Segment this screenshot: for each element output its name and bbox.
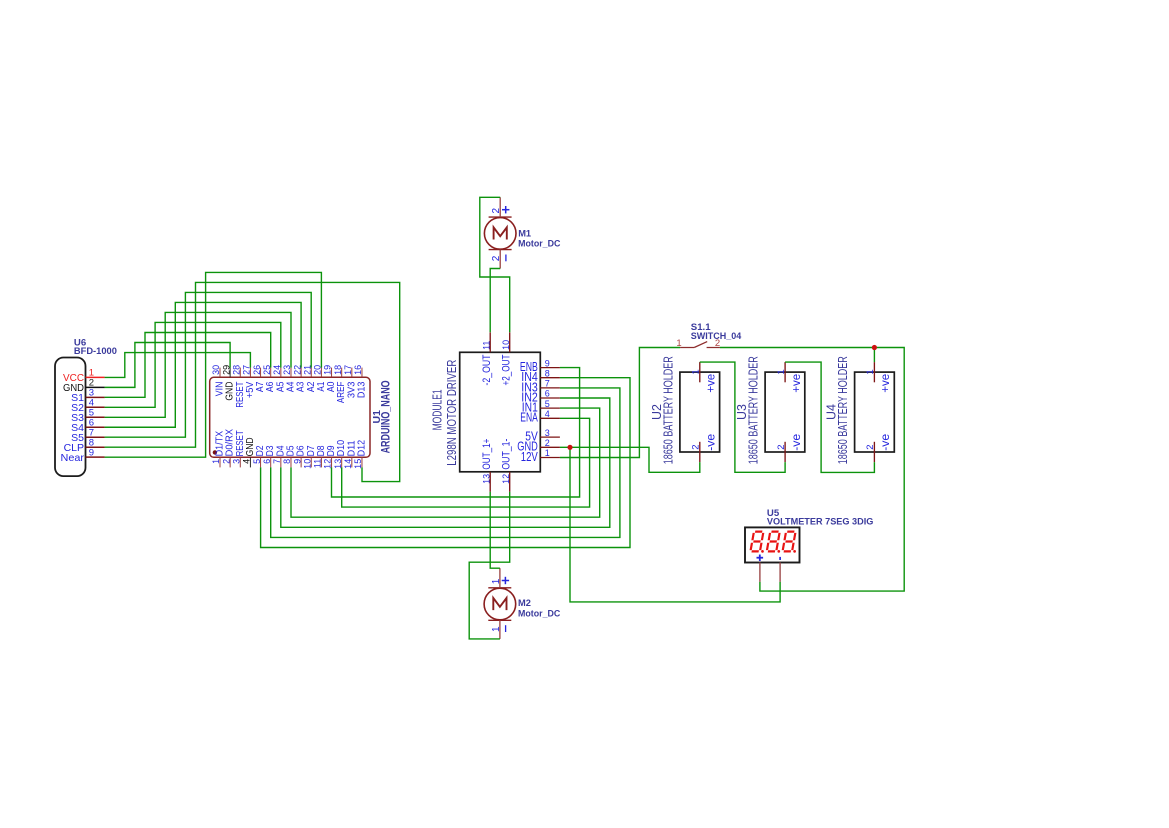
- U1 pin 16 (D13) top: [353, 365, 367, 398]
- svg-text:30: 30: [211, 365, 221, 375]
- U1 pin 17 (3V3) top: [343, 365, 357, 398]
- svg-text:7: 7: [545, 379, 550, 389]
- wire U6.7 S5 to U1.21 A2: [105, 292, 312, 437]
- svg-text:3: 3: [545, 428, 550, 438]
- svg-text:SWITCH_04: SWITCH_04: [691, 331, 742, 342]
- svg-text:28: 28: [231, 365, 241, 375]
- svg-text:OUT_1+: OUT_1+: [481, 439, 493, 470]
- MODULE1 pin 6 (IN2) right: [521, 389, 560, 405]
- U6 pin 3 (S1): [71, 388, 105, 404]
- junction net BATT+ at U4.1: [872, 345, 877, 350]
- wire U1.7 D4 to MODULE1.6 IN2: [281, 398, 610, 527]
- U1 pin 9 (D6) bottom: [292, 445, 306, 467]
- svg-text:M2: M2: [518, 598, 531, 608]
- svg-text:17: 17: [343, 365, 353, 375]
- U1 pin 14 (D11) bottom: [343, 440, 357, 469]
- svg-text:6: 6: [262, 459, 272, 464]
- U1 pin 12 (D9) bottom: [323, 445, 337, 469]
- U1 pin 24 (A5) top: [272, 365, 286, 392]
- U1 pin 18 (AREF) top: [333, 365, 347, 403]
- wire net BATT+ S1.1 pin2 to U5.1 +: [720, 348, 904, 592]
- U3 pin 2 (-ve) bottom: [776, 433, 803, 462]
- U1 pin 23 (A4) top: [282, 365, 296, 392]
- MODULE1 pin 10 (+2_OUT) top: [501, 332, 513, 385]
- svg-text:13: 13: [481, 474, 491, 484]
- M1 pin 2 (-) bottom: [491, 250, 506, 269]
- svg-text:10: 10: [501, 340, 511, 350]
- wire U2.1 +ve to U3.2 -ve: [700, 362, 785, 472]
- wire U6.9 Near to U1.20 A1: [105, 272, 322, 457]
- wire U6.5 S3 to U1.23 A4: [105, 312, 291, 417]
- svg-text:18650 BATTERY HOLDER: 18650 BATTERY HOLDER: [661, 356, 675, 464]
- U1 pin 6 (D3) bottom: [262, 445, 276, 467]
- svg-text:1: 1: [691, 369, 702, 374]
- svg-text:1: 1: [211, 459, 221, 464]
- U5 pin 1 (+): [757, 555, 764, 582]
- svg-text:+ve: +ve: [704, 373, 718, 392]
- wire U6.2 GND to U1.29 GND: [105, 343, 231, 388]
- MODULE1 pin 11 (-2_OUT) top: [481, 332, 493, 385]
- svg-text:6: 6: [545, 389, 550, 399]
- wire U6.6 S4 to U1.22 A3: [105, 302, 302, 427]
- svg-text:ENA: ENA: [520, 410, 538, 425]
- U4 pin 2 (-ve) bottom: [865, 433, 892, 462]
- U1 pin 4 (GND) bottom: [242, 437, 256, 467]
- svg-text:13: 13: [333, 459, 343, 469]
- U1 pin 5 (D2) bottom: [252, 445, 266, 467]
- wire MODULE1.13 OUT_1+ to M2.+: [490, 492, 500, 568]
- U1 pin 3 (RESET) bottom: [231, 430, 245, 467]
- svg-text:M1: M1: [518, 228, 531, 238]
- wire U1.5 D2 to MODULE1.8 IN4: [261, 378, 630, 548]
- battery holder U2 18650 BATTERY HOLDER body: [680, 372, 720, 452]
- battery holder U4 18650 BATTERY HOLDER body: [855, 372, 895, 452]
- U1 pin 22 (A3) top: [292, 365, 306, 392]
- wire MODULE1.12 OUT_1- to M2.-: [469, 492, 510, 639]
- connector U6 BFD-1000 body: [55, 358, 86, 477]
- U1 pin 21 (A2) top: [302, 365, 316, 392]
- U1 pin 13 (D10) bottom: [333, 440, 347, 469]
- svg-text:BFD-1000: BFD-1000: [74, 346, 117, 357]
- svg-text:18650 BATTERY HOLDER: 18650 BATTERY HOLDER: [747, 356, 761, 464]
- svg-text:5: 5: [545, 399, 550, 409]
- voltmeter U5 body: [745, 527, 800, 562]
- svg-text:2: 2: [776, 445, 787, 450]
- svg-text:9: 9: [89, 447, 94, 458]
- wire U6.3 S1 to U1.25 A6: [105, 333, 271, 398]
- svg-text:18650 BATTERY HOLDER: 18650 BATTERY HOLDER: [836, 356, 850, 464]
- U2 pin 1 (+ve) top: [691, 362, 718, 393]
- svg-text:Motor_DC: Motor_DC: [518, 609, 561, 619]
- svg-text:12V: 12V: [521, 449, 538, 464]
- svg-text:18: 18: [333, 365, 343, 375]
- U1 pin 29 (GND) top: [221, 365, 235, 401]
- U1 pin 11 (D8) bottom: [313, 445, 327, 468]
- svg-text:VOLTMETER 7SEG 3DIG: VOLTMETER 7SEG 3DIG: [767, 516, 874, 527]
- wire U6.8 CLP to U1.15 D12: [105, 282, 400, 481]
- U5 pin 2 (-): [779, 557, 781, 582]
- U5 7-segment display digits: [750, 532, 795, 553]
- svg-text:D12: D12: [356, 440, 367, 457]
- svg-text:7: 7: [272, 459, 282, 464]
- MODULE1 pin 7 (IN3) right: [521, 379, 560, 395]
- U1 pin 26 (A7) top: [252, 365, 266, 392]
- svg-text:5: 5: [252, 459, 262, 464]
- U1 pin 2 (D0/RX) bottom: [221, 429, 235, 468]
- svg-text:8: 8: [545, 368, 550, 378]
- svg-text:+ve: +ve: [789, 373, 803, 392]
- MODULE1 pin 5 (IN1) right: [522, 399, 560, 415]
- svg-text:9: 9: [545, 358, 550, 368]
- wire U6.1 VCC to U1.27 +5V: [105, 353, 251, 378]
- U1 pin 1 marker dot: [213, 450, 217, 454]
- motor M2 Motor_DC symbol: [484, 588, 516, 621]
- U1 pin 8 (D5) bottom: [282, 445, 296, 467]
- U3 pin 1 (+ve) top: [776, 362, 803, 393]
- U1 pin 20 (A1) top: [313, 365, 327, 392]
- svg-text:-2_OUT: -2_OUT: [481, 354, 493, 385]
- svg-text:1: 1: [865, 369, 876, 374]
- svg-text:4: 4: [242, 459, 252, 464]
- module MODULE1 L298N MOTOR DRIVER body: [460, 352, 541, 472]
- wire U3.1 +ve to U4.2 -ve: [785, 362, 874, 472]
- svg-text:4: 4: [545, 409, 550, 419]
- svg-text:16: 16: [353, 365, 363, 375]
- MODULE1 pin 2 (GND) right: [517, 438, 560, 454]
- U6 pin 4 (S2): [71, 398, 105, 414]
- svg-text:11: 11: [313, 459, 323, 468]
- M2 pin 1 (+) top: [491, 568, 509, 588]
- MODULE1 pin 12 (OUT_1-) bottom: [501, 438, 513, 491]
- MODULE1 pin 13 (OUT_1+) bottom: [481, 439, 493, 492]
- svg-text:12: 12: [323, 459, 333, 469]
- MODULE1 pin 9 (ENB) right: [520, 358, 560, 374]
- MODULE1 pin 8 (IN4) right: [521, 368, 560, 384]
- switch S1.1 SWITCH_04 symbol: [680, 342, 720, 348]
- U1 pin 1 (D1/TX) bottom: [211, 431, 225, 468]
- svg-text:1: 1: [776, 369, 787, 374]
- wire U1.12 D9 to MODULE1.9 ENB: [332, 368, 580, 497]
- U1 pin 28 (RESET) top: [231, 365, 245, 408]
- svg-text:-ve: -ve: [878, 433, 892, 450]
- svg-text:OUT_1-: OUT_1-: [501, 438, 513, 469]
- U1 pin 30 (VIN) top: [211, 365, 225, 396]
- U1 pin 10 (D7) bottom: [302, 445, 316, 469]
- U1 pin 27 (+5V) top: [242, 365, 256, 398]
- U6 pin 1 (VCC): [63, 368, 105, 384]
- U6 pin 9 (Near): [61, 447, 105, 463]
- U1 pin 15 (D12) bottom: [353, 440, 367, 469]
- wire net GND branch to U5.2 -: [570, 447, 780, 602]
- svg-text:8: 8: [282, 459, 292, 464]
- U6 pin 2 (GND): [63, 378, 105, 394]
- wire net GND MODULE1.2 to U2.2 -ve: [560, 447, 700, 472]
- svg-text:Motor_DC: Motor_DC: [518, 238, 561, 248]
- M2 pin 1 (-) bottom: [491, 620, 506, 639]
- svg-text:D13: D13: [356, 381, 367, 398]
- svg-text:L298N MOTOR DRIVER: L298N MOTOR DRIVER: [445, 360, 459, 466]
- U2 pin 2 (-ve) bottom: [691, 433, 718, 462]
- U6 pin 5 (S3): [71, 407, 105, 423]
- wire M1.+ to MODULE1.10 +2_OUT: [480, 197, 510, 332]
- svg-text:2: 2: [491, 208, 502, 214]
- svg-text:2: 2: [545, 438, 550, 448]
- svg-text:-ve: -ve: [789, 433, 803, 450]
- U1 pin 25 (A6) top: [262, 365, 276, 392]
- svg-text:-ve: -ve: [704, 433, 718, 450]
- MCU U1 ARDUINO_NANO body: [210, 377, 370, 457]
- U6 pin 8 (CLP): [64, 437, 105, 453]
- wire U1.8 D5 to MODULE1.5 IN1: [291, 408, 600, 517]
- wire U4.1 +ve to net BATT+: [873, 348, 875, 363]
- U1 pin 19 (A0) top: [323, 365, 337, 392]
- MODULE1 pin 1 (12V) right: [521, 448, 560, 464]
- svg-text:MODULE1: MODULE1: [430, 389, 444, 430]
- wire U6.4 S2 to U1.24 A5: [105, 322, 281, 407]
- svg-text:9: 9: [292, 459, 302, 464]
- svg-text:+ve: +ve: [878, 373, 892, 392]
- svg-text:15: 15: [353, 459, 363, 469]
- MODULE1 pin 4 (ENA) right: [520, 409, 560, 425]
- junction net GND at MODULE1.2: [567, 445, 572, 450]
- svg-text:1: 1: [491, 626, 502, 632]
- MODULE1 pin 3 (5V) right: [525, 428, 560, 444]
- svg-text:2: 2: [865, 445, 876, 450]
- svg-text:3: 3: [231, 459, 241, 464]
- svg-text:1: 1: [545, 448, 550, 458]
- svg-text:Near: Near: [61, 452, 85, 464]
- svg-text:12: 12: [501, 474, 511, 484]
- svg-text:26: 26: [252, 365, 262, 375]
- M1 pin 2 (+) top: [491, 197, 509, 217]
- battery holder U3 18650 BATTERY HOLDER body: [765, 372, 805, 452]
- svg-text:10: 10: [302, 459, 312, 469]
- U6 pin 6 (S4): [71, 417, 105, 433]
- U6 pin 7 (S5): [71, 427, 105, 443]
- svg-text:2: 2: [691, 445, 702, 450]
- wire U1.6 D3 to MODULE1.7 IN3: [271, 388, 620, 538]
- svg-text:1: 1: [491, 578, 502, 584]
- svg-text:+2_OUT: +2_OUT: [501, 354, 513, 385]
- svg-text:19: 19: [323, 365, 333, 375]
- wire M1.- to MODULE1.11 -2_OUT: [490, 269, 500, 333]
- motor M1 Motor_DC symbol: [484, 217, 516, 250]
- wire U1.13 D10 to MODULE1.4 ENA: [342, 418, 590, 507]
- svg-text:ARDUINO_NANO: ARDUINO_NANO: [381, 380, 393, 453]
- U4 pin 1 (+ve) top: [865, 362, 892, 393]
- U1 pin 7 (D4) bottom: [272, 445, 286, 467]
- svg-text:2: 2: [221, 459, 231, 464]
- wire net 12V MODULE1.1 to S1.1 pin1: [560, 348, 680, 458]
- svg-text:2: 2: [491, 255, 502, 261]
- svg-text:14: 14: [343, 459, 353, 469]
- svg-text:11: 11: [481, 341, 491, 350]
